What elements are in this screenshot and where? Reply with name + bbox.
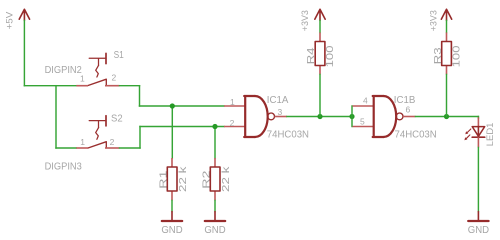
svg-text:DIGPIN3: DIGPIN3	[45, 161, 83, 172]
resistor R2	[201, 158, 232, 201]
supply +3V3 (R4)	[300, 9, 325, 31]
wire +5V vertical	[23, 21, 25, 86]
svg-text:IC1A: IC1A	[267, 95, 289, 106]
supply +5V symbol	[4, 9, 29, 29]
svg-text:4: 4	[363, 96, 368, 106]
svg-text:S2: S2	[111, 114, 123, 125]
svg-text:R4: R4	[306, 47, 317, 64]
svg-text:3: 3	[278, 107, 283, 117]
wire S1 pin2 to corner	[120, 85, 140, 87]
wire junction down to R1	[171, 106, 173, 158]
svg-text:R3: R3	[433, 47, 444, 64]
supply +3V3 (R3)	[428, 9, 451, 31]
switch S2	[76, 114, 123, 148]
svg-text:1: 1	[80, 73, 85, 83]
NAND gate IC1B	[353, 95, 437, 141]
wire +3V3 to R3	[446, 21, 448, 33]
node junction R3	[444, 114, 449, 119]
wire R1 to GND	[171, 201, 173, 212]
svg-text:R2: R2	[201, 170, 212, 189]
svg-text:74HC03N: 74HC03N	[395, 130, 437, 141]
wire IC1A out to IC1B in	[287, 116, 352, 118]
resistor R4	[306, 33, 336, 75]
wire to IC1A pin2	[140, 126, 224, 128]
svg-text:1: 1	[80, 137, 85, 147]
switch S1	[76, 50, 124, 86]
wire junction down to R2	[214, 127, 216, 159]
svg-text:100: 100	[452, 45, 463, 67]
svg-text:GND: GND	[161, 225, 182, 236]
wire R2 to GND	[214, 201, 216, 212]
svg-text:+3V3: +3V3	[300, 10, 311, 31]
wire corner up	[139, 127, 141, 149]
svg-text:5: 5	[360, 117, 365, 127]
node junction IC1B input	[349, 114, 354, 119]
ground GND (LED)	[468, 212, 489, 237]
svg-text:S1: S1	[114, 50, 124, 61]
svg-text:+3V3: +3V3	[428, 10, 439, 31]
wire R4 to output node	[319, 75, 321, 117]
svg-text:74HC03N: 74HC03N	[267, 130, 309, 141]
wire to IC1A pin1	[140, 105, 225, 107]
svg-text:DIGPIN2: DIGPIN2	[45, 65, 82, 76]
svg-text:2: 2	[110, 137, 115, 147]
wire branch to S2 pin1	[56, 147, 76, 149]
svg-text:LED1: LED1	[485, 123, 495, 147]
svg-text:6: 6	[406, 105, 411, 115]
wire corner down	[139, 86, 141, 106]
node junction R4	[317, 114, 322, 119]
ground GND (R1)	[161, 212, 182, 237]
svg-text:22 k: 22 k	[178, 165, 189, 192]
svg-text:R1: R1	[158, 170, 169, 189]
node junction R1	[170, 103, 175, 108]
node junction R2	[212, 124, 217, 129]
svg-text:22 k: 22 k	[221, 165, 232, 192]
svg-text:GND: GND	[468, 225, 489, 236]
resistor R1	[158, 158, 189, 201]
wire LED to GND	[477, 148, 479, 212]
wire R3 to output node	[446, 75, 448, 117]
svg-text:1: 1	[230, 97, 235, 107]
wire +5V to S1 pin1	[24, 85, 76, 87]
svg-text:IC1B: IC1B	[394, 95, 416, 106]
svg-text:100: 100	[325, 45, 336, 67]
wire IC1B input split	[351, 106, 353, 127]
NAND gate IC1A	[224, 95, 309, 141]
wire branch down to S2	[55, 86, 57, 148]
wire +3V3 to R4	[319, 21, 321, 33]
wire S2 pin2 to corner	[120, 147, 141, 149]
wire output node to LED corner	[477, 117, 479, 119]
resistor R3	[433, 33, 463, 75]
svg-text:2: 2	[230, 118, 235, 128]
svg-text:2: 2	[112, 72, 117, 82]
svg-text:GND: GND	[204, 225, 225, 236]
LED LED1	[464, 117, 495, 147]
ground GND (R2)	[204, 212, 225, 237]
wire IC1B out	[416, 116, 479, 118]
svg-text:+5V: +5V	[4, 11, 15, 29]
